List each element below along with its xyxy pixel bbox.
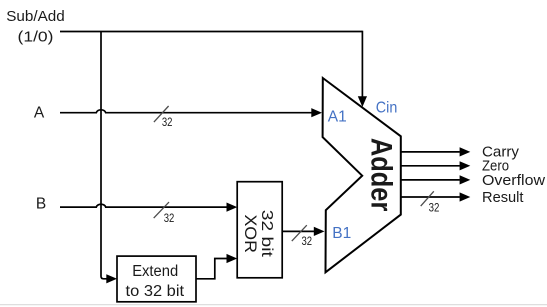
wire Result output — [401, 196, 460, 198]
wire Sub/Add top bus — [60, 31, 362, 33]
wire Carry output — [401, 151, 460, 153]
svg-text:B: B — [36, 196, 46, 213]
svg-text:32: 32 — [164, 212, 175, 225]
svg-text:A1: A1 — [328, 109, 347, 126]
xor box U2 32-bit XOR — [237, 182, 282, 278]
svg-text:Adder: Adder — [365, 138, 398, 212]
wire Sub/Add branch vertical to Extend box, with arrow — [101, 32, 107, 279]
svg-text:32 bit: 32 bit — [258, 210, 275, 258]
extend box U3 Extend to 32 bit — [117, 256, 196, 302]
svg-text:(1/0): (1/0) — [18, 29, 54, 46]
slide bottom edge line — [0, 304, 547, 306]
wire XOR to adder B1 with arrow — [282, 230, 314, 232]
wire Zero output — [401, 165, 460, 167]
svg-text:Overflow: Overflow — [482, 172, 545, 189]
svg-text:32: 32 — [162, 116, 173, 129]
svg-text:Extend: Extend — [132, 263, 178, 280]
svg-text:Cin: Cin — [376, 99, 398, 116]
svg-text:32: 32 — [302, 235, 313, 248]
wire Extend box to XOR box with arrow — [196, 259, 227, 279]
op-amp style ALU shape: adder U1 — [323, 78, 401, 272]
bus width slash A — [154, 106, 169, 122]
bus width slash Result — [421, 191, 434, 206]
wire Overflow output — [401, 179, 460, 181]
svg-text:to 32 bit: to 32 bit — [126, 283, 185, 300]
bus width slash XOR output — [292, 225, 307, 241]
svg-text:B1: B1 — [332, 225, 351, 242]
svg-text:32: 32 — [429, 201, 440, 214]
svg-text:Result: Result — [482, 189, 524, 206]
wire Cin drop with arrow into adder top edge — [361, 31, 363, 97]
label Sub/Add control input — [6, 8, 65, 46]
wire B input with hop over vertical and arrow into XOR box — [60, 204, 227, 207]
svg-text:A: A — [34, 105, 45, 122]
wire A input with hop over vertical and arrow into adder A1 — [60, 110, 312, 113]
svg-text:Sub/Add: Sub/Add — [6, 8, 65, 25]
bus width slash B — [154, 202, 169, 218]
svg-text:XOR: XOR — [241, 214, 259, 253]
